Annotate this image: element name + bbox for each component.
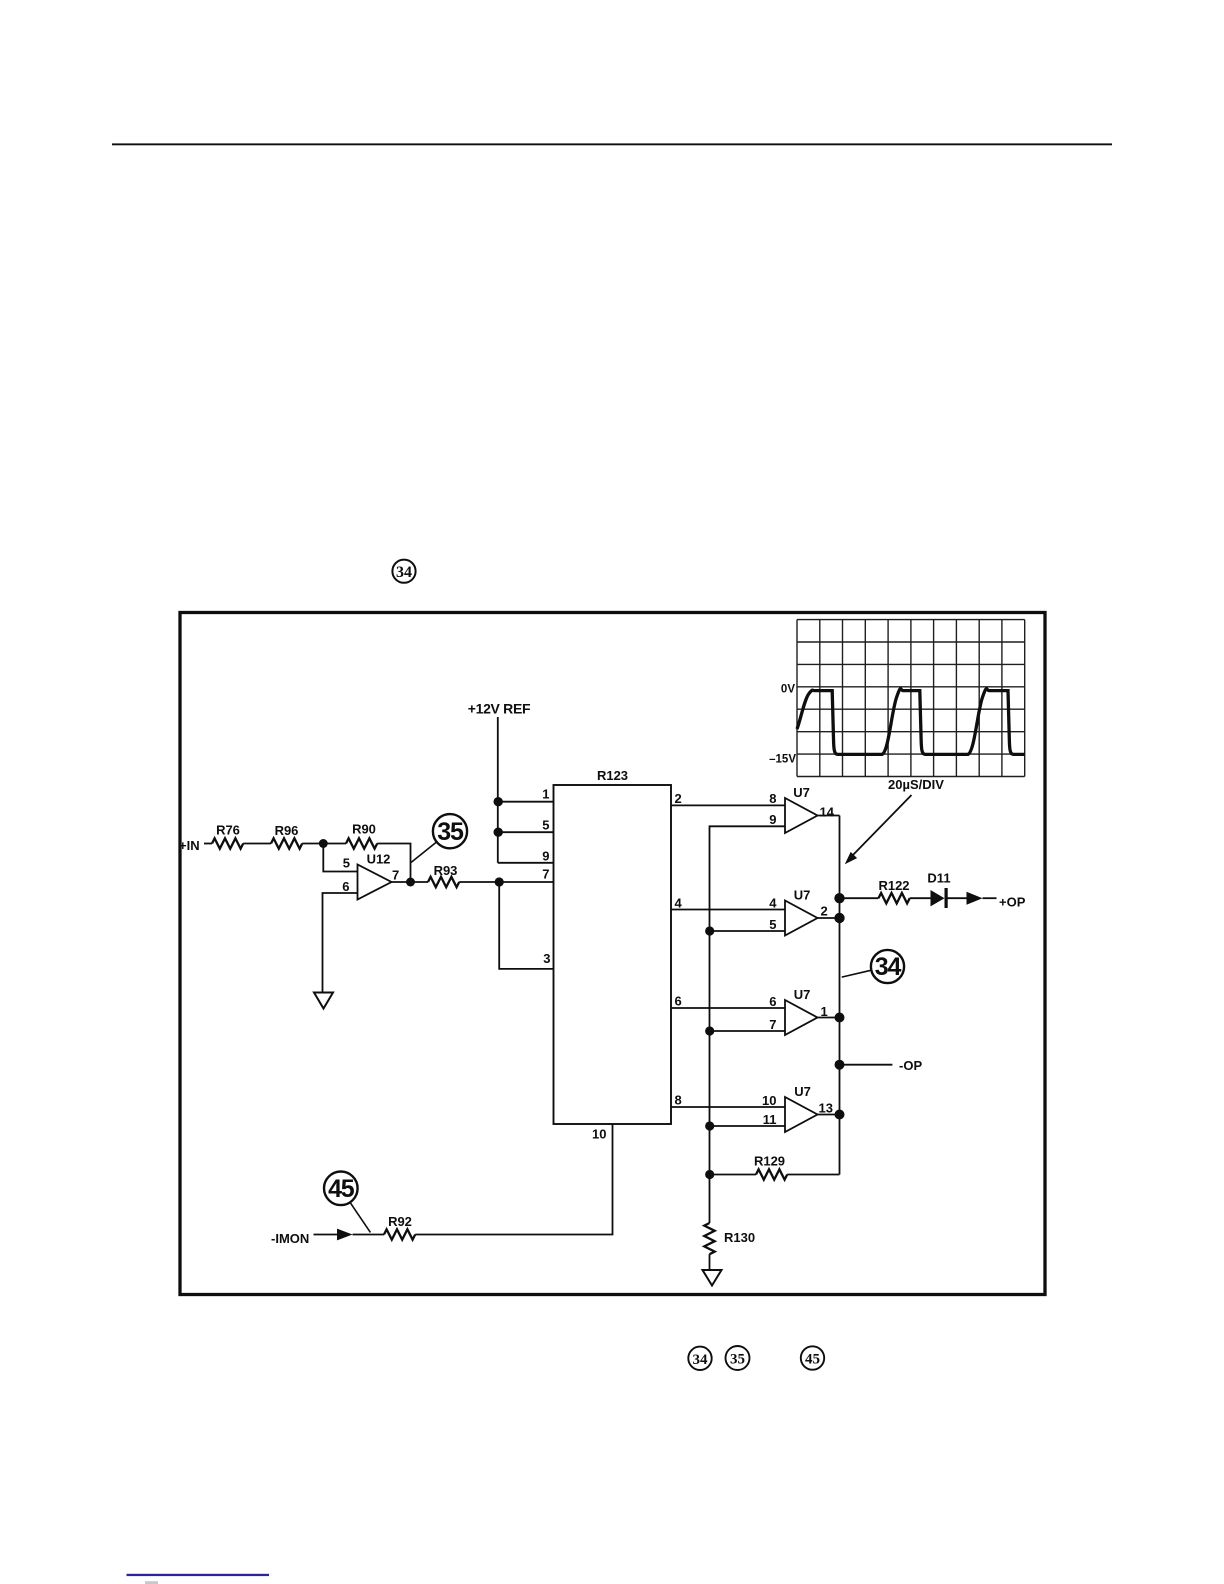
wire R130 to ground xyxy=(709,1254,711,1270)
circled reference 45 (caption line) xyxy=(801,1346,824,1369)
wire -IMON to arrow xyxy=(314,1234,338,1236)
svg-text:5: 5 xyxy=(343,855,350,870)
junction bus / -OP tap xyxy=(835,1060,845,1070)
op-amp U12 xyxy=(358,852,392,900)
svg-text:9: 9 xyxy=(769,812,776,827)
scope waveform xyxy=(797,689,1025,755)
wire U7d output to bus xyxy=(818,1114,840,1116)
circled callout 45 xyxy=(324,1172,370,1233)
arrow from scope to output bus xyxy=(845,795,912,864)
svg-text:5: 5 xyxy=(542,818,549,833)
junction +12V / pin 1 xyxy=(494,797,503,806)
svg-text:6: 6 xyxy=(769,994,776,1009)
svg-text:11: 11 xyxy=(763,1112,777,1127)
svg-text:13: 13 xyxy=(819,1101,833,1116)
svg-text:-OP: -OP xyxy=(899,1058,922,1073)
junction feeder / U7d pin 11 xyxy=(705,1121,714,1130)
svg-text:R92: R92 xyxy=(388,1214,412,1229)
wire node A to R90 xyxy=(323,843,346,845)
wire junction down to pin 3 xyxy=(499,882,553,969)
svg-text:R76: R76 xyxy=(216,823,240,838)
svg-text:R96: R96 xyxy=(275,823,299,838)
wire pin 8 to U7d pin 10 xyxy=(671,1106,785,1108)
wire D11 to arrow xyxy=(948,897,967,899)
svg-text:7: 7 xyxy=(769,1017,776,1032)
resistor R96 xyxy=(271,823,302,849)
svg-text:2: 2 xyxy=(675,791,682,806)
figure frame xyxy=(180,613,1045,1295)
wire bus to R122 xyxy=(840,897,879,899)
footer link underline xyxy=(127,1574,270,1576)
resistor R93 xyxy=(428,863,459,887)
svg-text:2: 2 xyxy=(821,904,828,919)
+12V REF vertical wire xyxy=(497,717,499,863)
U12 output node xyxy=(406,878,415,887)
resistor R92 xyxy=(384,1214,415,1240)
wire +IN to R76 xyxy=(204,843,212,845)
svg-text:35: 35 xyxy=(437,818,464,846)
wire R122 to D11 xyxy=(910,897,931,899)
circled callout 35 xyxy=(411,814,467,862)
junction +12V / pin 5 xyxy=(494,828,503,837)
op-amp U7c xyxy=(785,987,818,1035)
junction feeder / U7b pin 5 xyxy=(705,926,714,935)
svg-text:45: 45 xyxy=(328,1175,355,1203)
svg-text:–15V: –15V xyxy=(769,753,796,765)
wire U12 pin 6 to ground xyxy=(323,893,358,993)
junction bus / U7d output xyxy=(835,1110,845,1120)
svg-text:R130: R130 xyxy=(724,1230,755,1245)
wire pin 6 to U7c pin 6 xyxy=(671,1007,785,1009)
ground below U12 xyxy=(314,993,333,1009)
wire U7b output to bus xyxy=(818,917,840,919)
footer cut-off text remnant xyxy=(145,1581,158,1584)
svg-text:U7: U7 xyxy=(794,888,811,903)
svg-text:45: 45 xyxy=(805,1352,820,1368)
svg-text:R129: R129 xyxy=(754,1154,785,1169)
resistor R76 xyxy=(212,823,243,849)
junction feeder / U7c pin 7 xyxy=(705,1026,714,1035)
diode D11 xyxy=(927,871,950,908)
signal arrow to +OP xyxy=(967,892,983,905)
wire arrow to +OP label xyxy=(983,897,997,899)
svg-text:3: 3 xyxy=(543,951,550,966)
op-amp U7d xyxy=(785,1084,818,1132)
junction feeder / R129 xyxy=(705,1170,714,1179)
svg-text:8: 8 xyxy=(675,1093,682,1108)
svg-text:0V: 0V xyxy=(781,683,795,695)
wire +12V to pin 1 xyxy=(498,801,554,803)
junction bus / U7b output xyxy=(834,913,844,923)
wire R123 pin 10 down and left xyxy=(415,1124,612,1235)
wire feeder to R129 xyxy=(710,1174,757,1176)
output bus xyxy=(839,816,841,1175)
svg-text:R93: R93 xyxy=(434,863,458,878)
svg-text:10: 10 xyxy=(762,1093,776,1108)
resistor R130 xyxy=(704,1223,755,1254)
wire U12 output to R93 xyxy=(392,881,429,883)
svg-text:6: 6 xyxy=(342,879,349,894)
wire R76 to R96 xyxy=(243,843,271,845)
svg-text:-IMON: -IMON xyxy=(271,1231,309,1246)
svg-text:5: 5 xyxy=(769,917,776,932)
junction R93 / pin7 / pin3 xyxy=(495,877,504,886)
wire R93 to junction xyxy=(459,881,553,883)
svg-text:+OP: +OP xyxy=(999,894,1026,909)
svg-text:U7: U7 xyxy=(794,1084,811,1099)
svg-text:4: 4 xyxy=(675,896,683,911)
svg-text:R123: R123 xyxy=(597,768,628,783)
svg-text:34: 34 xyxy=(875,953,902,981)
svg-text:D11: D11 xyxy=(927,871,950,886)
resistor R90 xyxy=(346,822,377,849)
svg-text:1: 1 xyxy=(542,787,549,802)
circled reference 34 (in text above figure) xyxy=(392,560,415,583)
svg-text:34: 34 xyxy=(396,564,412,581)
svg-text:10: 10 xyxy=(592,1126,606,1141)
svg-text:U7: U7 xyxy=(793,785,810,800)
wire arrow to R92 xyxy=(353,1234,385,1236)
svg-text:7: 7 xyxy=(392,867,399,882)
junction node A xyxy=(319,839,328,848)
wire R129 to bus bottom xyxy=(787,1174,839,1176)
svg-text:6: 6 xyxy=(675,994,682,1009)
circled reference 34 (caption line) xyxy=(688,1347,711,1370)
svg-text:20µS/DIV: 20µS/DIV xyxy=(888,777,944,792)
wire pin 2 to U7a pin 8 xyxy=(671,804,785,806)
signal arrow on -IMON input xyxy=(337,1229,353,1241)
wire R96 to node A xyxy=(302,843,323,845)
wire node A down to U12 pin 5 xyxy=(323,844,357,872)
op-amp U7b xyxy=(785,888,818,936)
wire +12V to pin 5 xyxy=(498,831,554,833)
wire U7c output to bus xyxy=(818,1017,840,1019)
wire feeder to U7b pin 5 xyxy=(710,930,786,932)
svg-text:14: 14 xyxy=(820,805,835,820)
oscilloscope graticule xyxy=(797,620,1025,777)
svg-text:8: 8 xyxy=(769,791,776,806)
svg-text:34: 34 xyxy=(693,1352,709,1368)
circled reference 35 (caption line) xyxy=(726,1346,750,1370)
junction bus / U7c output xyxy=(835,1013,845,1023)
wire feeder to U7c pin 7 xyxy=(710,1030,786,1032)
wire feeder to U7d pin 11 xyxy=(710,1125,786,1127)
op-amp U7a xyxy=(785,785,818,833)
wire U7a output to bus xyxy=(818,815,840,817)
svg-text:+12V REF: +12V REF xyxy=(468,701,531,717)
resistor R129 xyxy=(754,1154,787,1180)
page horizontal rule xyxy=(112,143,1112,145)
svg-text:+IN: +IN xyxy=(179,838,200,853)
resistor R122 xyxy=(878,878,909,903)
wire bus to -OP label xyxy=(840,1064,893,1066)
svg-text:R90: R90 xyxy=(352,822,376,837)
wire +12V to pin 9 xyxy=(498,862,554,864)
feeder wire to U7a pin 9 xyxy=(710,826,786,1223)
svg-text:U7: U7 xyxy=(794,987,811,1002)
wire pin 4 to U7b pin 4 xyxy=(671,909,785,911)
svg-text:7: 7 xyxy=(542,866,549,881)
svg-text:U12: U12 xyxy=(367,852,391,867)
svg-text:35: 35 xyxy=(730,1352,745,1368)
resistor network R123 xyxy=(554,768,672,1124)
feedback wire R90 to U12 output xyxy=(377,844,410,883)
svg-text:4: 4 xyxy=(769,895,777,910)
svg-text:9: 9 xyxy=(542,849,549,864)
circled callout 34 (schematic) xyxy=(842,950,904,983)
svg-text:R122: R122 xyxy=(878,878,909,893)
junction bus / +OP tap xyxy=(834,893,844,903)
ground below R130 xyxy=(703,1270,722,1286)
